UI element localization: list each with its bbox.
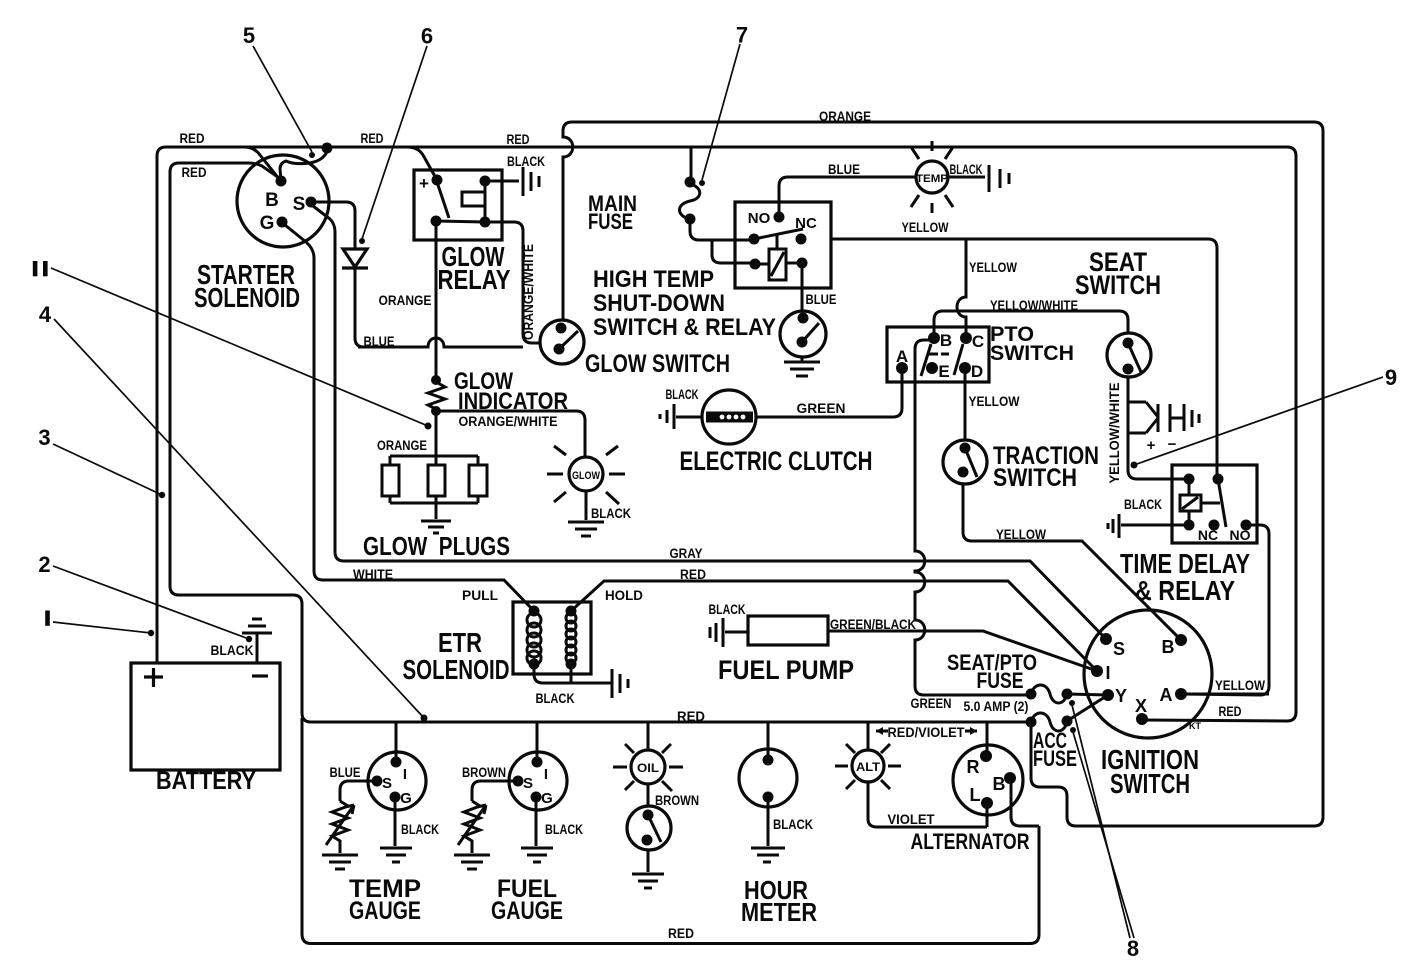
svg-text:NO: NO	[748, 210, 771, 227]
svg-text:YELLOW/WHITE: YELLOW/WHITE	[1107, 383, 1122, 484]
svg-text:GREEN/BLACK: GREEN/BLACK	[830, 617, 916, 632]
svg-text:ALTERNATOR: ALTERNATOR	[911, 829, 1030, 854]
svg-text:RELAY: RELAY	[438, 264, 511, 295]
svg-text:SWITCH: SWITCH	[990, 342, 1074, 365]
svg-text:S: S	[382, 775, 392, 792]
svg-text:YELLOW/WHITE: YELLOW/WHITE	[990, 298, 1078, 313]
svg-text:HOLD: HOLD	[605, 588, 643, 603]
svg-text:RED/VIOLET: RED/VIOLET	[888, 725, 966, 740]
svg-text:SWITCH & RELAY: SWITCH & RELAY	[593, 314, 776, 341]
svg-text:2: 2	[38, 552, 50, 577]
svg-text:BLACK: BLACK	[401, 822, 439, 837]
svg-text:RED: RED	[668, 926, 694, 941]
svg-text:GAUGE: GAUGE	[349, 897, 421, 925]
svg-text:BLUE: BLUE	[364, 334, 395, 349]
svg-text:NO: NO	[1230, 527, 1251, 543]
svg-text:G: G	[400, 790, 412, 807]
svg-text:SWITCH: SWITCH	[1110, 768, 1190, 799]
svg-text:BLACK: BLACK	[773, 817, 813, 832]
svg-text:A: A	[1160, 685, 1173, 705]
svg-text:9: 9	[1385, 365, 1397, 390]
svg-text:TEMP: TEMP	[916, 173, 948, 185]
svg-text:GRAY: GRAY	[670, 546, 703, 561]
svg-text:RED: RED	[680, 567, 706, 582]
svg-text:RED: RED	[361, 131, 384, 146]
svg-text:E: E	[938, 362, 949, 381]
svg-text:S: S	[523, 775, 533, 792]
svg-text:R: R	[967, 757, 980, 777]
svg-text:BLACK: BLACK	[1124, 497, 1162, 512]
svg-text:I: I	[544, 766, 548, 783]
svg-text:I: I	[403, 766, 407, 783]
svg-text:GREEN: GREEN	[797, 401, 846, 416]
svg-text:D: D	[971, 362, 983, 381]
svg-text:+: +	[419, 174, 429, 193]
svg-text:BATTERY: BATTERY	[156, 767, 256, 795]
svg-text:B: B	[265, 190, 279, 211]
svg-text:SOLENOID: SOLENOID	[403, 654, 510, 685]
svg-text:BLACK: BLACK	[536, 691, 575, 706]
svg-text:Y: Y	[1115, 686, 1127, 706]
svg-text:GREEN: GREEN	[911, 696, 952, 711]
svg-text:G: G	[541, 790, 553, 807]
svg-text:YELLOW: YELLOW	[1215, 678, 1265, 693]
svg-text:WHITE: WHITE	[353, 567, 393, 582]
svg-text:3: 3	[38, 425, 50, 450]
svg-text:ORANGE: ORANGE	[377, 438, 427, 453]
svg-text:YELLOW: YELLOW	[996, 527, 1046, 542]
svg-text:8: 8	[1127, 936, 1139, 961]
svg-text:RED: RED	[1219, 704, 1242, 719]
svg-text:ALT: ALT	[856, 760, 881, 774]
svg-text:HIGH TEMP: HIGH TEMP	[593, 266, 714, 293]
svg-text:G: G	[260, 213, 275, 234]
svg-text:SWITCH: SWITCH	[1075, 270, 1161, 300]
svg-text:BROWN: BROWN	[655, 793, 699, 808]
svg-text:YELLOW: YELLOW	[969, 394, 1020, 409]
svg-text:BLUE: BLUE	[828, 162, 860, 177]
svg-text:FUSE: FUSE	[588, 209, 633, 234]
svg-text:RED: RED	[180, 131, 205, 146]
svg-text:BLACK: BLACK	[507, 154, 545, 169]
svg-text:ORANGE: ORANGE	[819, 109, 871, 124]
svg-text:B: B	[940, 331, 952, 350]
svg-text:FUEL PUMP: FUEL PUMP	[718, 655, 854, 685]
svg-text:I: I	[1105, 663, 1110, 683]
svg-text:BLACK: BLACK	[211, 643, 254, 658]
svg-text:SWITCH: SWITCH	[993, 464, 1077, 492]
svg-text:YELLOW: YELLOW	[902, 220, 949, 235]
svg-text:FUSE: FUSE	[977, 668, 1024, 693]
svg-text:L: L	[970, 785, 981, 805]
svg-text:SOLENOID: SOLENOID	[194, 282, 300, 313]
svg-text:7: 7	[736, 23, 748, 48]
svg-text:+: +	[1147, 437, 1156, 454]
svg-text:RED: RED	[182, 165, 207, 180]
svg-text:GAUGE: GAUGE	[491, 897, 563, 925]
svg-text:BLUE: BLUE	[330, 765, 361, 780]
svg-text:S: S	[293, 194, 306, 215]
svg-text:ORANGE/WHITE: ORANGE/WHITE	[459, 414, 558, 429]
svg-text:5.0 AMP (2): 5.0 AMP (2)	[964, 699, 1029, 714]
svg-text:KT: KT	[1189, 721, 1201, 731]
svg-text:YELLOW: YELLOW	[969, 260, 1017, 275]
svg-text:BLACK: BLACK	[545, 822, 583, 837]
svg-text:BLACK: BLACK	[709, 602, 746, 617]
svg-text:GLOW PLUGS: GLOW PLUGS	[363, 531, 510, 561]
svg-text:S: S	[1113, 639, 1125, 659]
svg-text:BLACK: BLACK	[666, 387, 699, 402]
svg-text:RED: RED	[677, 709, 705, 724]
svg-text:PULL: PULL	[462, 588, 498, 603]
svg-text:A: A	[896, 347, 908, 366]
svg-text:B: B	[1162, 637, 1175, 657]
svg-text:NC: NC	[1198, 527, 1218, 543]
svg-text:OIL: OIL	[637, 761, 659, 775]
svg-text:BLACK: BLACK	[591, 506, 631, 521]
svg-text:BROWN: BROWN	[462, 765, 506, 780]
svg-text:FUSE: FUSE	[1033, 746, 1077, 771]
svg-text:ELECTRIC CLUTCH: ELECTRIC CLUTCH	[680, 446, 873, 476]
svg-text:GLOW SWITCH: GLOW SWITCH	[585, 350, 730, 378]
svg-text:BLUE: BLUE	[806, 292, 837, 307]
svg-text:RED: RED	[507, 132, 530, 147]
svg-text:ORANGE: ORANGE	[379, 293, 432, 308]
svg-text:C: C	[972, 332, 984, 351]
svg-text:VIOLET: VIOLET	[888, 812, 936, 827]
svg-text:BLACK: BLACK	[950, 162, 983, 177]
svg-text:4: 4	[39, 302, 52, 327]
svg-text:GLOW: GLOW	[572, 470, 601, 482]
svg-text:SHUT-DOWN: SHUT-DOWN	[593, 290, 725, 317]
svg-text:B: B	[993, 774, 1006, 794]
svg-text:5: 5	[243, 23, 255, 48]
svg-text:NC: NC	[795, 215, 817, 232]
svg-text:ORANGE/WHITE: ORANGE/WHITE	[521, 244, 536, 340]
svg-text:INDICATOR: INDICATOR	[458, 388, 568, 415]
svg-text:METER: METER	[741, 897, 817, 927]
svg-text:X: X	[1135, 696, 1147, 716]
svg-text:& RELAY: & RELAY	[1135, 575, 1235, 606]
svg-text:6: 6	[421, 24, 433, 49]
